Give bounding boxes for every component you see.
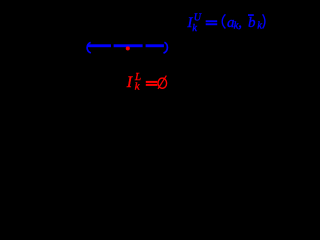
interval segment 2 [114, 44, 143, 47]
svg-text:,: , [238, 15, 242, 31]
svg-text:k: k [257, 20, 262, 31]
interval segment 1 [87, 44, 111, 47]
svg-text:U: U [194, 13, 202, 24]
svg-text:I: I [126, 74, 133, 91]
interval segment 3 [146, 44, 164, 47]
label I_k^U = (a_k, b-bar_k) [186, 13, 265, 35]
midpoint dot [126, 46, 130, 50]
label I_k^L = emptyset [126, 71, 158, 92]
interval upper I: left paren end [87, 42, 91, 53]
svg-text:k: k [192, 23, 197, 34]
emptyset oval [158, 78, 167, 88]
svg-text:b: b [248, 15, 256, 31]
emptyset slash [158, 76, 166, 89]
interval right paren end [164, 42, 168, 53]
